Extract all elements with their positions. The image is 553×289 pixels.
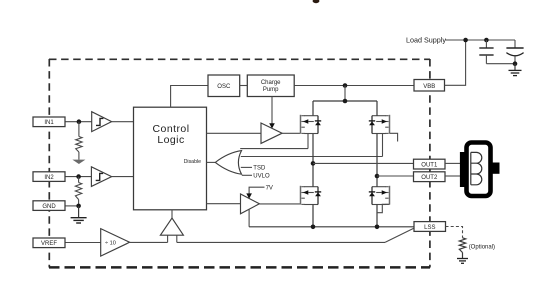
svg-text:IN1: IN1 <box>44 120 54 126</box>
sense line from comparator to LSS <box>177 241 385 243</box>
node junction bottom rail left <box>311 225 316 230</box>
Q3 drain vertical from OUT1 <box>312 163 314 186</box>
Q2 drain vertical <box>376 101 378 116</box>
resistor R2 pull-down on IN2 <box>75 177 81 206</box>
bridge top rail <box>313 100 377 102</box>
ground symbol for GND pin <box>71 206 87 223</box>
svg-text:LSS: LSS <box>424 225 435 231</box>
fault sense tap vertical at Q2 <box>382 134 384 157</box>
schmitt buffer U1 <box>92 112 112 132</box>
node junction OUT2 <box>375 174 380 179</box>
node junction at GND <box>76 204 81 209</box>
svg-text:OUT2: OUT2 <box>421 175 438 181</box>
wire C1 bottom to ground node <box>486 63 515 65</box>
bottom sense rail LSS <box>249 226 414 228</box>
motor left terminal tab <box>460 152 467 187</box>
dashed wire LSS to optional resistor <box>446 227 463 238</box>
svg-text:7V: 7V <box>266 185 273 191</box>
control logic block <box>134 107 207 210</box>
pin box OUT2 <box>414 172 446 182</box>
divide by ten amplifier <box>101 229 130 257</box>
wire OUT2 line <box>377 175 414 177</box>
node junction top rail <box>343 99 348 104</box>
resistor R sense (optional) <box>459 238 465 253</box>
wire buffer U1 to control logic <box>112 121 134 123</box>
charge pump box <box>247 75 294 97</box>
motor right tab <box>491 163 500 174</box>
svg-text:GND: GND <box>42 204 56 210</box>
pin box VBB <box>414 80 445 92</box>
node junction on VBB line <box>343 83 348 88</box>
Q4 gate hook <box>377 204 390 212</box>
node junction bottom rail right <box>375 225 380 230</box>
svg-text:Logic: Logic <box>157 134 184 146</box>
Q1 source vertical to OUT1 <box>312 134 314 164</box>
resistor R1 pull-down on IN1 <box>76 122 82 160</box>
wire VREF pin to divider <box>65 242 101 244</box>
top gate driver amplifier <box>261 123 282 143</box>
svg-text:(Optional): (Optional) <box>469 244 495 250</box>
wire OUT1 line <box>313 162 414 164</box>
transistor Q3 with body diode <box>301 186 322 205</box>
Q2 gate hook <box>390 133 398 141</box>
bottom gate driver amplifier <box>241 194 260 214</box>
7V supply arrow into bottom driver <box>246 185 273 198</box>
ground symbol under R1 <box>72 160 85 164</box>
pin box OUT1 <box>414 159 446 169</box>
TSD input stub <box>241 166 252 168</box>
transistor Q2 with body diode (mirrored) <box>369 115 390 134</box>
fault sense line from Q2 source <box>241 156 383 158</box>
fault sense tap vertical at Q1 <box>307 134 309 149</box>
wire control logic to bottom gate driver <box>207 203 241 205</box>
node junction at ground <box>513 61 518 66</box>
Q2 source vertical to OUT2 <box>376 134 378 177</box>
wire load supply rail <box>446 39 516 41</box>
pin box VREF <box>33 238 65 248</box>
svg-text:IN2: IN2 <box>44 175 54 181</box>
wire GND pin to ground node <box>65 205 79 207</box>
svg-text:Load Supply: Load Supply <box>406 35 446 44</box>
capacitor C2 polarized <box>506 40 523 64</box>
motor winding coil <box>471 152 482 184</box>
svg-text:OSC: OSC <box>217 84 231 90</box>
wire control logic top to oscillator <box>171 86 208 108</box>
fault sense line from Q1 source <box>240 148 308 150</box>
wire control logic to disable OR gate <box>207 161 216 163</box>
pin box IN1 <box>33 117 65 127</box>
UVLO input stub <box>242 174 252 176</box>
oscillator box OSC <box>208 75 240 97</box>
wire OSC to charge pump <box>240 85 248 87</box>
wire bottom driver output to Q3 gate <box>259 203 300 205</box>
svg-text:÷ 10: ÷ 10 <box>105 241 116 247</box>
node junction OUT1 <box>311 161 316 166</box>
ground symbol for optional resistor <box>457 253 468 264</box>
motor load body <box>467 143 491 197</box>
svg-text:VREF: VREF <box>41 241 57 247</box>
svg-text:Control: Control <box>153 123 190 135</box>
current comparator (points up into control logic) <box>160 210 183 243</box>
wire VBB to load supply <box>445 40 466 85</box>
node junction at capacitor C1 <box>484 38 489 43</box>
Q4 source vertical to bottom rail <box>376 205 378 227</box>
Q3 source vertical to bottom rail <box>312 205 314 227</box>
wire charge pump down to top gate driver <box>269 97 275 129</box>
sense line from divider to comparator <box>130 241 168 243</box>
diagonal sense wire up to LSS pin <box>385 228 414 242</box>
svg-text:TSD: TSD <box>253 166 266 172</box>
pin box LSS <box>414 222 446 232</box>
pin box GND <box>33 201 65 211</box>
capacitor C1 <box>479 40 493 64</box>
node junction at IN1 <box>77 119 82 124</box>
IC boundary dashed bottom edge <box>49 266 430 269</box>
wire OUT1 to motor <box>445 162 461 164</box>
svg-text:Charge: Charge <box>261 80 281 86</box>
IC boundary dashed top edge <box>49 58 430 60</box>
wire OUT2 to motor <box>445 175 461 177</box>
transistor Q4 with body diode (mirrored) <box>369 186 390 205</box>
node junction at IN2 <box>76 174 81 179</box>
svg-text:VBB: VBB <box>423 84 435 90</box>
svg-text:Pump: Pump <box>263 87 279 93</box>
svg-text:UVLO: UVLO <box>253 174 270 180</box>
pin box IN2 <box>33 172 65 182</box>
Q1 drain vertical <box>312 101 314 116</box>
node junction at VBB feed <box>463 38 468 43</box>
schmitt buffer U2 <box>91 167 111 187</box>
wire control logic to top gate driver <box>207 132 262 134</box>
fault OR gate (faces left) <box>215 151 241 175</box>
wire bottom driver reference to sense rail <box>248 209 250 227</box>
wire IN1 pin to input buffer <box>65 121 92 123</box>
IC boundary dashed left edge <box>48 59 50 268</box>
Q4 drain vertical from OUT2 <box>376 176 378 187</box>
svg-text:OUT1: OUT1 <box>421 162 438 168</box>
title descender remnant at top <box>313 0 320 3</box>
wire buffer U2 to control logic <box>112 176 134 178</box>
wire IN2 pin to input buffer <box>65 176 91 178</box>
ground symbol for load supply <box>509 64 522 76</box>
IC boundary dashed right edge <box>429 59 431 268</box>
wire junction down to bridge top rail <box>344 86 346 102</box>
transistor Q1 with body diode <box>301 115 322 134</box>
wire charge pump to VBB pin <box>294 85 414 87</box>
wire top driver output to Q1 gate <box>282 132 300 134</box>
svg-text:Disable: Disable <box>184 159 201 165</box>
